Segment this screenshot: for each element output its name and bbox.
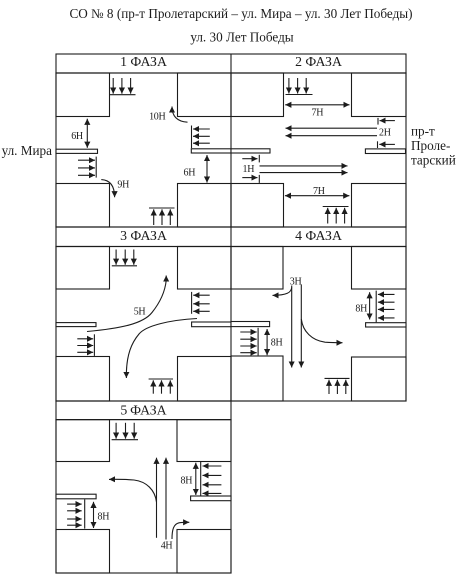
P4 right-turn branch curve (301, 319, 342, 343)
P2 left crosswalk bar (231, 149, 270, 153)
P3 arrow 5Н up S-curve (87, 276, 166, 332)
P4 right crosswalk bar (366, 323, 406, 327)
P4 corner block bottom-left (231, 356, 283, 401)
P1 bottom approach up arrows (153, 209, 155, 225)
grid row 1 content box (56, 73, 406, 227)
grid row 2 content box (56, 247, 406, 402)
P4 corner block bottom-right (352, 357, 407, 401)
P5 left-turn branch curve (109, 479, 157, 502)
svg-text:пр-т: пр-т (411, 124, 435, 139)
P4 bottom stop line (325, 377, 350, 379)
svg-text:ул. 30 Лет Победы: ул. 30 Лет Победы (190, 30, 293, 45)
P3 left crosswalk bar (56, 323, 96, 327)
P3 arrow 5Н down S-curve (126, 319, 197, 379)
svg-text:4Н: 4Н (161, 540, 173, 551)
grid header row 2 (56, 227, 406, 247)
P1 corner block top-left (56, 73, 110, 117)
P5 right approach bar line (200, 462, 202, 498)
P4 left approach bar line (257, 328, 259, 356)
svg-text:2 ФАЗА: 2 ФАЗА (295, 54, 342, 69)
P1 corner block bottom-right (178, 184, 232, 228)
svg-text:1 ФАЗА: 1 ФАЗА (120, 54, 167, 69)
P5 pedestrian arrow 8Н left (93, 502, 95, 528)
svg-text:6Н: 6Н (184, 168, 196, 179)
P5 corner block bottom-right (177, 530, 231, 574)
P5 through up arrow left (156, 458, 158, 538)
svg-text:8Н: 8Н (355, 304, 367, 315)
svg-text:ул. Мира: ул. Мира (2, 143, 53, 158)
P5 through up arrow right (165, 458, 167, 540)
P4 through down arrow right (300, 285, 302, 368)
svg-text:тарский: тарский (411, 153, 456, 168)
P2 top stop line (286, 94, 313, 96)
svg-text:8Н: 8Н (98, 511, 110, 522)
P3 right crosswalk bar (192, 322, 231, 327)
P1 corner block top-right (178, 73, 232, 117)
P4 left approach right arrows (240, 331, 256, 333)
P3 corner block top-left (56, 247, 110, 290)
svg-text:5Н: 5Н (134, 307, 146, 318)
P2 corner block top-left (231, 73, 284, 117)
svg-text:7Н: 7Н (313, 186, 325, 197)
P2 right small arrow upper with tick (377, 118, 379, 125)
P2 bottom approach up arrows (327, 208, 329, 224)
P2 corner block top-right (352, 73, 407, 117)
P4 right approach bar line (375, 291, 377, 323)
P2 right crosswalk bar (365, 149, 405, 154)
P3 bottom stop line (149, 378, 173, 380)
grid row 3 content box (56, 420, 231, 573)
P1 right approach left arrows (193, 128, 210, 130)
P3 right approach left arrows (193, 294, 210, 296)
P3 left approach right arrows (77, 338, 93, 340)
P4 corner block top-left (231, 247, 283, 290)
P2 corner block bottom-right (352, 184, 407, 228)
P4 pedestrian arrow 8Н right (369, 292, 371, 319)
grid header row 1 (56, 54, 406, 73)
P3 top approach down arrows (115, 250, 117, 265)
P1 left crosswalk bar (56, 149, 98, 153)
grid center divider (230, 54, 232, 401)
svg-text:8Н: 8Н (181, 476, 193, 487)
P1 arrow 9Н right-turn curve (101, 180, 114, 198)
P3 top stop line (112, 265, 137, 267)
P2 pedestrian arrow 7Н top (285, 104, 349, 106)
P2 top approach down arrows (288, 78, 290, 94)
P5 corner block top-left (56, 420, 110, 462)
P1 corner block bottom-left (56, 184, 110, 228)
svg-text:10Н: 10Н (149, 111, 165, 122)
svg-text:4 ФАЗА: 4 ФАЗА (295, 228, 342, 243)
P1 arrow 10Н right-turn curve (172, 107, 188, 123)
svg-text:2Н: 2Н (379, 128, 391, 139)
svg-text:6Н: 6Н (71, 131, 83, 142)
P3 bottom approach up arrows (152, 380, 154, 393)
P5 right crosswalk bar (191, 496, 231, 501)
P4 through down arrow left (291, 286, 293, 368)
P4 right approach left arrows (378, 293, 395, 295)
svg-text:8Н: 8Н (271, 337, 283, 348)
grid header row 3 (56, 401, 231, 420)
P2 left small arrow upper with tick (242, 158, 257, 160)
P1 right approach bar line (191, 126, 193, 149)
P4 bottom approach up arrows (328, 380, 330, 394)
P1 pedestrian arrow 6Н right (206, 155, 208, 183)
P4 left crosswalk bar (231, 322, 270, 327)
P1 bottom stop line (149, 207, 175, 209)
svg-text:Проле-: Проле- (411, 138, 450, 153)
svg-text:3 ФАЗА: 3 ФАЗА (120, 228, 167, 243)
P3 corner block bottom-left (56, 357, 110, 402)
P1 pedestrian arrow 6Н left (86, 119, 88, 148)
svg-text:СО № 8 (пр-т Пролетарский – ул: СО № 8 (пр-т Пролетарский – ул. Мира – у… (69, 6, 412, 21)
P2 right small arrow lower with tick (377, 141, 379, 148)
P4 corner block top-right (352, 247, 407, 290)
P2 corner block bottom-left (231, 184, 284, 228)
P1 left approach bar line (95, 157, 97, 178)
P2 left small arrow lower with tick (242, 177, 257, 179)
P5 top stop line (112, 439, 138, 441)
P2 bottom stop line (323, 206, 349, 208)
P5 right approach left arrows (203, 465, 222, 467)
P5 left approach right arrows (67, 503, 82, 505)
P2 pedestrian arrow 7Н bottom (285, 195, 350, 197)
P1 top approach down arrows (112, 78, 114, 94)
P1 left approach right arrows (78, 159, 95, 161)
P3 corner block top-right (178, 247, 232, 290)
P3 corner block bottom-right (178, 357, 232, 402)
P4 pedestrian arrow 8Н left (266, 329, 268, 355)
P1 top stop line (110, 94, 136, 96)
P5 left crosswalk bar (56, 494, 96, 499)
P5 left approach bar line (84, 499, 86, 528)
svg-text:9Н: 9Н (117, 180, 129, 191)
P5 top approach down arrows (115, 423, 117, 439)
svg-text:1Н: 1Н (243, 164, 255, 175)
svg-text:5 ФАЗА: 5 ФАЗА (120, 402, 166, 417)
P4 arrow 3Н left-turn hook (273, 288, 292, 296)
P2 arrows 2Н through lanes (286, 127, 378, 129)
P5 corner block bottom-left (56, 530, 110, 574)
P5 corner block top-right (177, 420, 231, 462)
P3 right approach bar line (191, 292, 193, 314)
P2 arrows 1Н through lanes (260, 165, 348, 167)
P1 right crosswalk bar (191, 149, 231, 153)
P3 left approach bar line (93, 334, 95, 356)
P5 pedestrian arrow 8Н right (195, 463, 197, 495)
svg-text:7Н: 7Н (312, 108, 324, 119)
P5 right-turn hook curve (172, 522, 189, 539)
